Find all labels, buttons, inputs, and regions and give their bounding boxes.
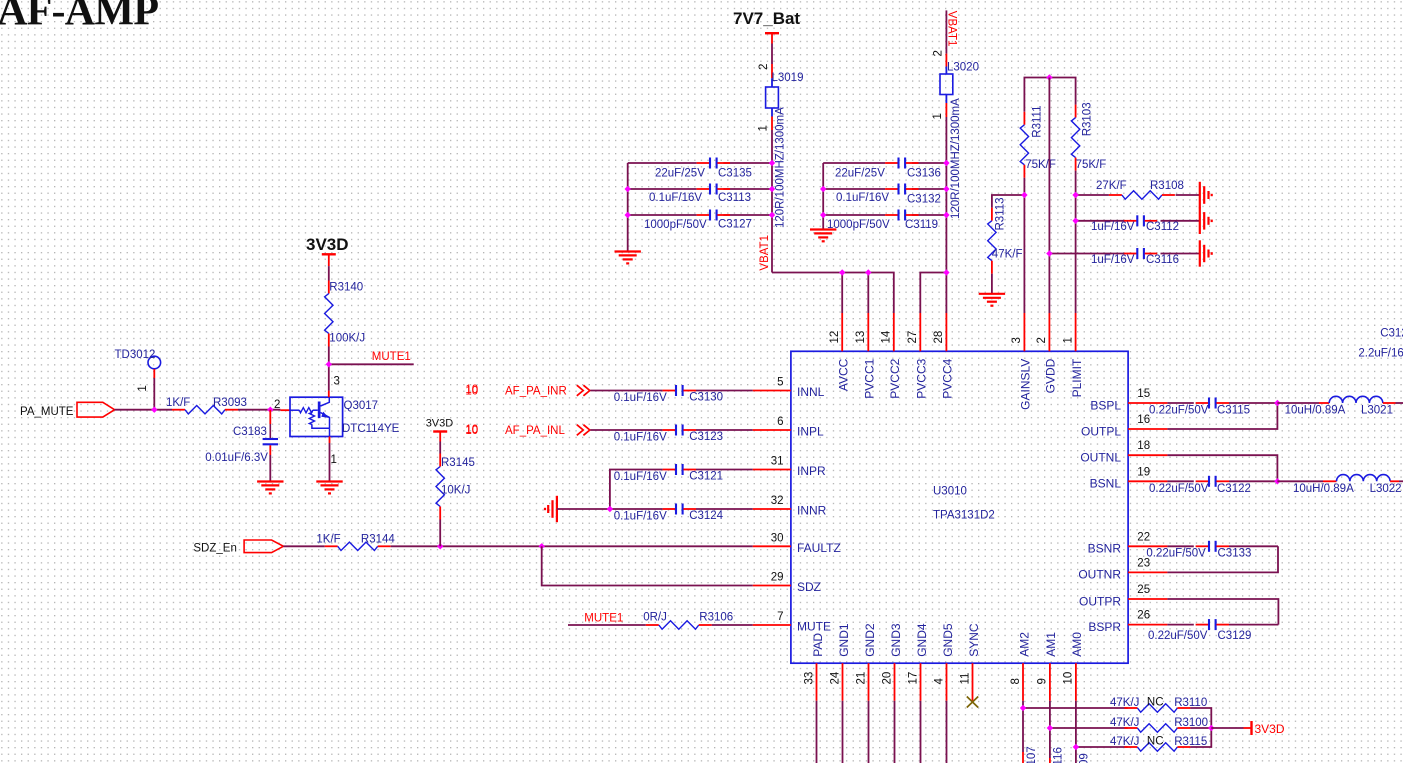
wire AF_PA_INR to cap [590, 390, 662, 392]
wire BSNR to OUTNR [1167, 546, 1278, 572]
svg-text:R3145: R3145 [441, 457, 475, 469]
svg-text:0.22uF/50V: 0.22uF/50V [1149, 405, 1209, 417]
wire C3135 row [628, 162, 772, 164]
svg-text:PVCC4: PVCC4 [941, 358, 955, 398]
svg-text:75K/F: 75K/F [1076, 159, 1107, 171]
ground right of C3116 [1200, 240, 1212, 266]
wire R3144 to FAULTZ [391, 545, 753, 547]
svg-text:0.1uF/16V: 0.1uF/16V [614, 392, 667, 404]
wire BSPL row [1167, 402, 1277, 404]
svg-text:C3136: C3136 [907, 168, 941, 180]
svg-text:10uH/0.89A: 10uH/0.89A [1293, 483, 1354, 495]
svg-text:1uF/16V: 1uF/16V [1091, 221, 1135, 233]
svg-text:3: 3 [1011, 337, 1023, 343]
pin 21 (GND2) [855, 623, 877, 701]
svg-text:BSNR: BSNR [1088, 542, 1122, 556]
resistor R3140 100K/J [325, 281, 366, 347]
svg-text:L3021: L3021 [1361, 405, 1393, 417]
wire C3123 to IC [696, 429, 753, 431]
wire OUTPL to node [1167, 403, 1277, 429]
svg-text:VBAT1: VBAT1 [946, 11, 958, 47]
wire Q3017 collector [328, 364, 330, 397]
wire C3121 to IC [696, 469, 753, 471]
svg-text:1: 1 [1062, 337, 1074, 343]
transistor Q3017 DTC114YE [280, 397, 399, 436]
svg-text:BSNL: BSNL [1090, 477, 1122, 491]
pin 5 (INNL) [753, 377, 825, 400]
svg-text:116: 116 [1053, 747, 1065, 763]
net label VBAT1 top [946, 11, 958, 47]
svg-text:C3113: C3113 [718, 192, 751, 204]
svg-text:VBAT1: VBAT1 [759, 235, 771, 271]
wire R3140 to MUTE1 node [328, 347, 330, 365]
wire top bus R3111-R3103 [1024, 78, 1075, 112]
wire AM1 net [1050, 701, 1128, 763]
svg-text:INNL: INNL [797, 385, 825, 399]
svg-text:0.22uF/50V: 0.22uF/50V [1148, 630, 1208, 642]
svg-text:FAULTZ: FAULTZ [797, 541, 841, 555]
svg-text:L3022: L3022 [1370, 483, 1402, 495]
power symbol 3V3D right [1244, 721, 1285, 736]
wire node to L3021 [1277, 402, 1319, 404]
wire right bank rail [822, 163, 824, 230]
svg-text:100K/J: 100K/J [329, 333, 365, 345]
svg-text:10: 10 [1063, 672, 1075, 685]
svg-text:DTC114YE: DTC114YE [342, 423, 400, 435]
junction dots right bank [820, 160, 950, 218]
pin 33 (PAD) [803, 633, 825, 701]
svg-text:U3010: U3010 [933, 486, 967, 498]
svg-text:31: 31 [771, 456, 784, 468]
junction dot left output node 2 [1274, 478, 1280, 484]
wire R3110 to 3V3D node [1190, 708, 1211, 728]
wire C3132 row [823, 188, 946, 190]
svg-text:7V7_Bat: 7V7_Bat [733, 9, 800, 28]
net label 116 [1053, 747, 1065, 765]
svg-text:0.1uF/16V: 0.1uF/16V [614, 510, 667, 522]
wire R3100 to 3V3D node [1190, 727, 1211, 729]
svg-text:15: 15 [1137, 388, 1150, 400]
capacitor C3124 0.1uF/16V [614, 504, 724, 523]
ground Q3017 emitter [316, 482, 342, 494]
pin 28 (PVCC4) [933, 313, 955, 399]
ground right of C3112 [1200, 208, 1212, 234]
net label AF_PA_INR [505, 386, 567, 398]
wire R3115 to 3V3D node [1190, 728, 1211, 747]
svg-text:7: 7 [777, 611, 783, 623]
wire AM0 net [1076, 701, 1128, 763]
svg-text:PA_MUTE: PA_MUTE [20, 406, 74, 418]
pin 3 (GAINSLV) [1011, 313, 1032, 410]
svg-text:NC: NC [1147, 697, 1164, 709]
svg-text:PVCC1: PVCC1 [863, 358, 877, 398]
svg-text:C3129: C3129 [1218, 630, 1252, 642]
svg-text:AM2: AM2 [1017, 632, 1031, 657]
pin 15 (BSPL) [1090, 388, 1167, 412]
wire MUTE1 to R3106 [568, 624, 646, 626]
pin 16 (OUTPL) [1081, 414, 1167, 438]
net label MUTE1 upper [372, 351, 411, 363]
capacitor C3133 0.22uF/50V [1146, 541, 1251, 560]
svg-text:TPA3131D2: TPA3131D2 [933, 510, 995, 522]
wire BSNL row [1167, 480, 1277, 482]
svg-text:AF_PA_INL: AF_PA_INL [505, 425, 565, 437]
svg-text:GND4: GND4 [915, 623, 929, 657]
pin number 1 of L3020 [932, 113, 944, 119]
svg-text:8: 8 [1010, 678, 1022, 684]
junction dot input bias [607, 506, 613, 512]
svg-text:2: 2 [758, 64, 770, 70]
wire R3103 to PLIMIT [1075, 171, 1077, 313]
wire Q3017 emitter [329, 437, 331, 482]
svg-text:21: 21 [855, 672, 867, 685]
svg-text:C3183: C3183 [233, 426, 267, 438]
inductor L3020 120R/100MHZ/1300mA [940, 54, 979, 219]
junction dot TD3012 [151, 407, 157, 413]
wire node to L3022 [1277, 480, 1323, 482]
svg-text:47K/J: 47K/J [1110, 736, 1139, 748]
off-page chevrons AF_PA_INL [577, 425, 590, 436]
pin 25 (OUTPR) [1079, 584, 1167, 608]
wire AVCC drop [841, 273, 843, 314]
svg-text:30: 30 [771, 532, 784, 544]
net label MUTE1 lower [584, 613, 623, 625]
wire GVDD column [1048, 78, 1050, 314]
pin 4 (GND5) [933, 623, 955, 701]
svg-text:47K/J: 47K/J [1110, 717, 1139, 729]
wire MUTE1 stub [329, 363, 414, 365]
svg-text:AM1: AM1 [1044, 632, 1058, 657]
resistor R3145 10K/J [436, 454, 475, 520]
title AF-AMP [0, 0, 159, 35]
svg-text:AVCC: AVCC [837, 358, 851, 391]
pin number 1 of Q3017 [331, 454, 337, 466]
wire R3113 to ground [991, 274, 993, 294]
resistor R3115 47K/J NC [1110, 736, 1207, 752]
junction dots on bus [839, 269, 950, 275]
pin 30 (FAULTZ) [753, 532, 841, 555]
power symbol 3V3D top [306, 235, 349, 266]
wire C3124 to IC [696, 508, 753, 510]
pin 24 (GND1) [829, 623, 851, 701]
svg-text:107: 107 [1026, 746, 1038, 763]
svg-text:C3135: C3135 [718, 168, 752, 180]
junction dot MUTE1 [326, 361, 332, 367]
junction dot R3145 bottom [437, 543, 443, 549]
wire SDZ_En to R3144 [283, 545, 324, 547]
svg-text:1: 1 [331, 454, 337, 466]
wire BSNR row [1167, 545, 1278, 547]
svg-text:0.1uF/16V: 0.1uF/16V [614, 471, 667, 483]
svg-text:C3125: C3125 [1380, 328, 1403, 340]
power symbol 7V7_Bat [733, 9, 800, 44]
page ref 10 lower [465, 424, 478, 436]
junction dot GVDD top [1046, 74, 1052, 80]
wire 3V3D to R3140 [328, 266, 330, 280]
svg-text:1K/F: 1K/F [166, 397, 190, 409]
svg-text:17: 17 [907, 672, 919, 685]
wire BSPR row [1167, 624, 1278, 626]
svg-text:1: 1 [758, 125, 770, 131]
svg-text:24: 24 [829, 671, 841, 684]
wire C3113 row [628, 188, 772, 190]
svg-text:C3122: C3122 [1217, 483, 1251, 495]
svg-text:C3119: C3119 [905, 219, 938, 231]
svg-text:R3106: R3106 [699, 612, 733, 624]
pin 31 (INPR) [753, 456, 826, 479]
svg-text:10: 10 [465, 424, 478, 436]
svg-text:4: 4 [933, 678, 945, 685]
junction dots AM nets [1020, 705, 1215, 750]
svg-text:C3132: C3132 [907, 194, 941, 206]
svg-text:32: 32 [771, 495, 784, 507]
svg-text:1K/F: 1K/F [316, 534, 340, 546]
wire C3127 row [628, 214, 772, 216]
pin number 2 of L3019 [758, 64, 770, 70]
wire R3145 to FAULTZ [439, 520, 441, 547]
svg-text:C3130: C3130 [689, 391, 723, 403]
pin 26 (BSPR) [1088, 610, 1167, 634]
capacitor label C3125 top right [1380, 328, 1403, 340]
svg-text:3V3D: 3V3D [306, 235, 349, 254]
page ref 10 upper [465, 384, 478, 396]
pin number 2 of Q3017 [274, 399, 280, 411]
svg-text:2: 2 [1036, 337, 1048, 343]
wire VBAT1 to L3020 [945, 10, 947, 53]
svg-text:6: 6 [777, 416, 783, 428]
wire C3130 to IC [696, 390, 753, 392]
net label AF_PA_INL [505, 425, 565, 437]
svg-text:10: 10 [465, 384, 478, 396]
svg-text:MUTE1: MUTE1 [372, 351, 411, 363]
svg-text:0.22uF/50V: 0.22uF/50V [1149, 483, 1209, 495]
wire PVCC1 drop [867, 273, 869, 314]
pin 1 (PLIMIT) [1062, 313, 1084, 397]
svg-text:28: 28 [933, 331, 945, 344]
wire PVCC4 drop [945, 273, 947, 314]
capacitor C3136 22uF/25V [835, 158, 941, 180]
svg-text:PLIMIT: PLIMIT [1070, 358, 1084, 397]
svg-text:C3133: C3133 [1218, 548, 1252, 560]
capacitor C3121 0.1uF/16V [614, 464, 723, 483]
wire VBAT1 bus segment B [920, 273, 946, 314]
svg-text:OUTNR: OUTNR [1078, 568, 1121, 582]
junction dots divider [1021, 192, 1079, 257]
svg-text:INNR: INNR [797, 504, 827, 518]
svg-text:AF-AMP: AF-AMP [0, 0, 159, 35]
svg-text:BSPR: BSPR [1088, 620, 1121, 634]
svg-text:0.1uF/16V: 0.1uF/16V [614, 431, 667, 443]
svg-text:C3127: C3127 [718, 219, 752, 231]
svg-text:14: 14 [881, 330, 893, 343]
svg-text:TD3012: TD3012 [115, 349, 156, 361]
svg-text:22uF/25V: 22uF/25V [835, 168, 885, 180]
pin 10 (AM0) [1063, 632, 1085, 701]
ground right of R3108 [1200, 182, 1212, 208]
page ref 10 for AF_PA_INL [465, 425, 478, 437]
svg-text:AM0: AM0 [1070, 632, 1084, 657]
svg-text:INPR: INPR [797, 464, 826, 478]
svg-text:GND3: GND3 [889, 623, 903, 657]
capacitor C3183 0.01uF/6.3V [205, 410, 278, 464]
svg-text:3: 3 [334, 376, 340, 388]
svg-text:OUTPL: OUTPL [1081, 424, 1121, 438]
svg-text:C3124: C3124 [689, 510, 723, 522]
svg-text:GVDD: GVDD [1044, 358, 1058, 393]
resistor R3100 47K/J [1110, 717, 1208, 732]
ground R3113 [979, 294, 1005, 306]
svg-text:GND5: GND5 [941, 623, 955, 657]
pin 6 (INPL) [753, 416, 824, 439]
wire OUTNL to node [1167, 455, 1277, 481]
svg-text:2: 2 [933, 50, 945, 56]
resistor R3110 47K/J NC [1110, 697, 1207, 713]
resistor R3111 75K/F [1020, 106, 1056, 178]
svg-text:0.01uF/6.3V: 0.01uF/6.3V [205, 452, 268, 464]
svg-text:120R/100MHZ/1300mA: 120R/100MHZ/1300mA [950, 98, 962, 219]
capacitor C3112 1uF/16V [1091, 215, 1179, 233]
pin 19 (BSNL) [1090, 466, 1168, 490]
svg-text:R3140: R3140 [329, 282, 363, 294]
svg-text:1uF/16V: 1uF/16V [1091, 254, 1135, 266]
svg-text:5: 5 [777, 377, 783, 389]
svg-text:18: 18 [1137, 440, 1150, 452]
svg-text:120R/100MHZ/1300mA: 120R/100MHZ/1300mA [774, 107, 786, 228]
svg-text:47K/F: 47K/F [992, 249, 1023, 261]
wire R3106 to IC [712, 624, 753, 626]
svg-text:R3108: R3108 [1150, 180, 1184, 192]
svg-text:L3020: L3020 [947, 62, 979, 74]
pin 11 (SYNC) [959, 623, 981, 701]
svg-text:MUTE1: MUTE1 [584, 613, 623, 625]
pin number 1 of L3019 [758, 125, 770, 131]
port SDZ_En [193, 540, 283, 555]
svg-text:0.1uF/16V: 0.1uF/16V [836, 192, 889, 204]
svg-text:3V3D: 3V3D [426, 418, 454, 430]
svg-text:GAINSLV: GAINSLV [1019, 359, 1033, 410]
svg-text:1: 1 [932, 113, 944, 119]
svg-text:2: 2 [274, 399, 280, 411]
IC U3010 TPA3131D2 body [791, 351, 1128, 663]
pin 32 (INNR) [753, 495, 827, 517]
wire GND5 to off-page [946, 701, 948, 763]
svg-text:SDZ: SDZ [797, 580, 821, 594]
resistor R3113 47K/F [988, 197, 1023, 273]
capacitor C3113 0.1uF/16V [649, 184, 751, 205]
pin 17 (GND4) [907, 623, 929, 701]
svg-text:C3112: C3112 [1146, 221, 1179, 233]
svg-text:0.1uF/16V: 0.1uF/16V [649, 192, 702, 204]
svg-text:29: 29 [771, 572, 784, 584]
svg-text:33: 33 [803, 672, 815, 685]
svg-text:INPL: INPL [797, 425, 824, 439]
pin 2 (GVDD) [1036, 313, 1058, 393]
wire SDZ branch [542, 546, 753, 585]
wire C3112 row [1076, 220, 1200, 222]
wire C3116 row [1049, 253, 1199, 255]
svg-text:22uF/25V: 22uF/25V [655, 168, 705, 180]
wire R3111 to GAINSLV [1023, 178, 1025, 313]
svg-text:12: 12 [829, 331, 841, 344]
svg-text:13: 13 [855, 331, 867, 344]
pin 22 (BSNR) [1088, 531, 1168, 555]
svg-text:GND2: GND2 [863, 623, 877, 657]
capacitor C3116 1uF/16V [1091, 248, 1179, 266]
wire 27K row [1076, 194, 1200, 196]
pin 27 (PVCC3) [907, 313, 929, 399]
port PA_MUTE [20, 402, 115, 418]
svg-text:C3115: C3115 [1217, 405, 1250, 417]
wire L3022 out [1399, 480, 1403, 482]
pin 20 (GND3) [881, 623, 903, 701]
capacitor C3115 0.22uF/50V [1149, 398, 1250, 417]
svg-text:11: 11 [959, 673, 971, 685]
svg-text:0.22uF/50V: 0.22uF/50V [1146, 548, 1206, 560]
ground left bank [615, 252, 641, 264]
wire AM2 net [1023, 701, 1128, 763]
svg-text:SDZ_En: SDZ_En [193, 543, 236, 555]
pin 9 (AM1) [1037, 632, 1059, 701]
pin 23 (OUTNR) [1078, 557, 1167, 581]
wire C3183 to ground [269, 455, 271, 482]
wire PAD to off-page [816, 701, 818, 763]
svg-text:1000pF/50V: 1000pF/50V [644, 219, 707, 231]
svg-text:R3113: R3113 [995, 197, 1007, 230]
wire R3113 tap [992, 195, 1025, 208]
resistor R3106 0R/J [643, 612, 733, 630]
svg-text:25: 25 [1137, 584, 1150, 596]
capacitor C3130 0.1uF/16V [614, 385, 723, 404]
svg-text:SYNC: SYNC [967, 623, 981, 657]
wire ground to C3124 node [557, 508, 663, 510]
svg-text:C3121: C3121 [689, 470, 723, 482]
resistor R3144 1K/F [316, 534, 395, 551]
wire GND3 to off-page [894, 701, 896, 763]
ground right bank [810, 230, 836, 242]
svg-text:R3144: R3144 [361, 534, 395, 546]
capacitor C3122 0.22uF/50V [1149, 476, 1251, 495]
svg-text:20: 20 [881, 672, 893, 685]
inductor L3019 120R/100MHZ/1300mA [766, 64, 804, 228]
inductor L3022 10uH/0.89A [1293, 475, 1402, 495]
junction dots left bank [625, 160, 776, 218]
wire L3021 out [1396, 402, 1403, 404]
wire OUTPR row [1167, 599, 1278, 625]
wire GND2 to off-page [868, 701, 870, 763]
wire AF_PA_INL to cap [590, 429, 662, 431]
pin number 2 of L3020 [933, 50, 945, 56]
svg-text:MUTE: MUTE [797, 620, 831, 634]
svg-text:0R/J: 0R/J [643, 612, 667, 624]
svg-text:PVCC2: PVCC2 [888, 358, 902, 398]
resistor R3108 27K/F [1096, 180, 1184, 199]
svg-text:OUTNL: OUTNL [1080, 451, 1121, 465]
svg-text:3V3D: 3V3D [1255, 722, 1285, 736]
svg-text:L3019: L3019 [772, 72, 804, 84]
wire 7V7_Bat to L3019 [771, 44, 773, 65]
pin 12 (AVCC) [829, 313, 851, 391]
resistor R3103 75K/F [1071, 102, 1106, 171]
svg-text:R3111: R3111 [1032, 106, 1044, 138]
svg-text:19: 19 [1137, 466, 1150, 478]
svg-text:26: 26 [1137, 610, 1150, 622]
junction dot left output node [1274, 400, 1280, 406]
wire to 3V3D right [1211, 727, 1243, 729]
net label VBAT1 left [759, 235, 771, 271]
svg-text:10uH/0.89A: 10uH/0.89A [1285, 405, 1346, 417]
svg-text:BSPL: BSPL [1090, 398, 1121, 412]
ground input bias [545, 496, 557, 522]
